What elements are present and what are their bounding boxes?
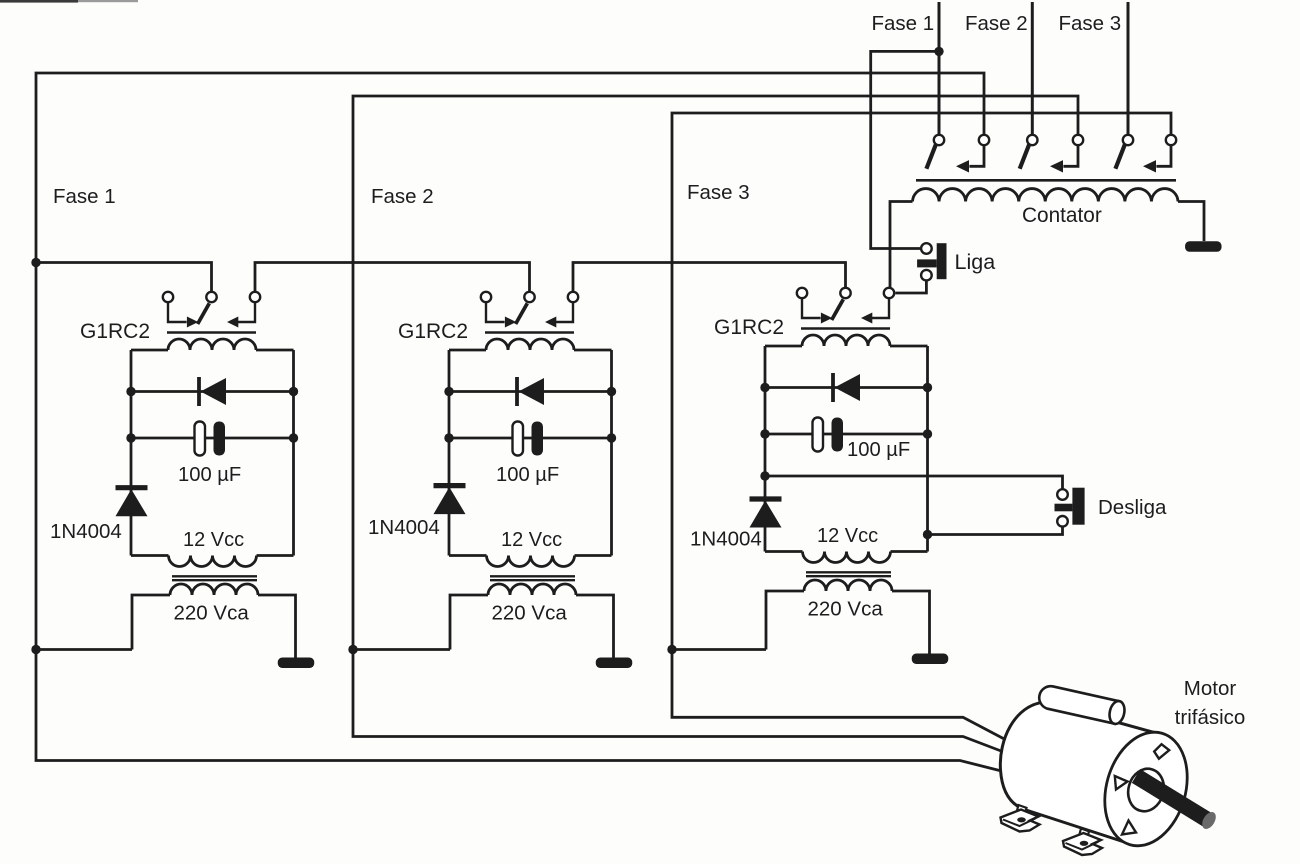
svg-text:1N4004: 1N4004 <box>368 516 440 539</box>
relay RL2 contacts <box>481 292 491 302</box>
wire rail to T1 primary <box>36 648 132 651</box>
wire phase2 to motor <box>353 650 1005 753</box>
diode 1N4004 (module 1) <box>116 485 148 490</box>
svg-text:100 µF: 100 µF <box>496 464 559 486</box>
junction C2 left <box>444 433 453 442</box>
svg-text:Fase 2: Fase 2 <box>371 185 434 208</box>
junction C2 right <box>607 433 616 442</box>
svg-text:Contator: Contator <box>1022 204 1102 227</box>
svg-text:Fase 1: Fase 1 <box>53 185 116 208</box>
relay RL3 coil <box>801 327 890 330</box>
junction Fase 1 tap <box>934 47 943 56</box>
svg-text:100 µF: 100 µF <box>847 439 910 461</box>
ground transformer T2 <box>596 658 633 669</box>
wire diode D1 row <box>131 390 294 393</box>
wire T3 primary right lead <box>892 591 930 654</box>
ground transformer T3 <box>912 654 949 665</box>
junction D3 left <box>760 383 769 392</box>
diode 1N4004 (module 3) <box>750 496 782 501</box>
wire phase1 left rail <box>35 263 38 650</box>
junction C1 right <box>289 433 298 442</box>
motor hub <box>1123 765 1168 816</box>
wire T2 primary right lead <box>576 595 614 658</box>
wire diode D2 row <box>449 390 612 393</box>
svg-text:220 Vca: 220 Vca <box>492 602 568 625</box>
wire phase2 bus (switch S2 to mid rail) <box>353 96 1078 650</box>
wire RL3 left branch <box>764 346 767 552</box>
transformer T2 (12 Vcc / 220 Vca) <box>487 556 575 567</box>
svg-text:trifásico: trifásico <box>1175 706 1246 729</box>
junction D2 right <box>607 387 616 396</box>
transformer T3 (12 Vcc / 220 Vca) <box>803 552 891 563</box>
svg-text:1N4004: 1N4004 <box>690 528 762 551</box>
contactor switch S1 (Fase 1) <box>934 135 944 145</box>
capacitor C3 100uF <box>813 418 824 452</box>
wire RL2 right branch <box>610 350 613 556</box>
motor vent 2 <box>1115 776 1128 790</box>
junction phase1 transformer T1 tap <box>31 645 40 654</box>
motor foot 2 <box>1063 829 1102 856</box>
pushbutton Liga <box>921 243 932 254</box>
ground contactor <box>1185 241 1222 252</box>
wire RL1 right branch <box>292 350 295 556</box>
wire T1 primary left lead <box>132 595 170 650</box>
svg-text:Fase 2: Fase 2 <box>965 12 1028 35</box>
junction phase3 transformer T3 tap <box>667 645 676 654</box>
motor vent 3 <box>1122 821 1136 835</box>
wire relay bus segment C (RL2 to RL3) <box>573 263 846 293</box>
wire relay bus segment A (rail to RL1 common) <box>36 263 212 293</box>
ground transformer T1 <box>278 658 315 669</box>
wire Fase 1 drop to switch <box>938 51 941 134</box>
capacitor C2 100uF <box>513 422 524 456</box>
svg-text:12 Vcc: 12 Vcc <box>817 525 878 547</box>
junction D1 left <box>126 387 135 396</box>
diode 1N4004 (module 2) <box>434 483 466 488</box>
motor foot 1 <box>1001 805 1040 832</box>
wire capacitor C3 row <box>765 433 928 436</box>
motor body <box>1023 702 1162 844</box>
svg-text:100 µF: 100 µF <box>178 464 241 486</box>
wire Fase 1 to Liga button <box>871 51 939 248</box>
wire T3 primary left lead <box>766 591 804 650</box>
contactor linkage bar <box>916 179 1176 182</box>
wire Liga bottom to relay RL3 contact <box>895 281 926 294</box>
svg-text:1N4004: 1N4004 <box>50 520 122 543</box>
svg-text:G1RC2: G1RC2 <box>80 320 150 343</box>
wire capacitor C2 row <box>449 437 612 440</box>
junction C3 left <box>760 429 769 438</box>
relay RL3 contacts <box>797 288 807 298</box>
wire RL3 right branch <box>926 346 929 552</box>
motor terminal box <box>1039 686 1119 724</box>
junction C1 left <box>126 433 135 442</box>
junction D3 right <box>923 383 932 392</box>
motor back face <box>1000 702 1044 809</box>
contactor switch S2 (Fase 2) <box>1027 135 1037 145</box>
wire contactor coil to ground <box>1178 202 1204 242</box>
motor vent 1 <box>1154 744 1169 759</box>
wire relay bus segment B (RL1 to RL2) <box>255 263 530 293</box>
contactor switch S3 (Fase 3) <box>1123 135 1133 145</box>
svg-text:G1RC2: G1RC2 <box>398 320 468 343</box>
wire Desliga bottom <box>928 527 1063 535</box>
svg-text:Desliga: Desliga <box>1098 496 1167 519</box>
svg-text:Fase 3: Fase 3 <box>687 181 750 204</box>
junction phase2 transformer T2 tap <box>348 645 357 654</box>
svg-text:G1RC2: G1RC2 <box>714 316 784 339</box>
junction D1 right <box>289 387 298 396</box>
motor front face <box>1092 722 1200 855</box>
wire phase3 bus (switch S3 to rail) <box>672 113 1171 650</box>
diode D2 (relay flyback) <box>515 377 519 406</box>
svg-text:220 Vca: 220 Vca <box>174 602 250 625</box>
contactor coil (Contator) <box>913 189 1179 202</box>
wire Fase 2 input drop <box>1031 2 1034 135</box>
transformer T1 (12 Vcc / 220 Vca) <box>169 556 257 567</box>
junction phase1 relay-bus tap <box>31 258 40 267</box>
svg-text:Liga: Liga <box>955 250 996 274</box>
wire Fase 3 input drop <box>1127 2 1130 135</box>
wire phase3 to motor <box>672 650 1009 742</box>
svg-text:Motor: Motor <box>1184 677 1237 700</box>
motor body top edge <box>1044 702 1162 735</box>
pushbutton Desliga <box>1057 489 1068 500</box>
motor body bottom edge <box>1023 809 1132 845</box>
wire phase1 bus (switch S1 to left rail) <box>36 73 984 263</box>
svg-text:Fase 1: Fase 1 <box>872 12 935 35</box>
capacitor C1 100uF <box>195 422 206 456</box>
wire T1 primary right lead <box>258 595 296 658</box>
svg-text:12 Vcc: 12 Vcc <box>183 529 244 551</box>
wire rail to T2 primary <box>353 648 450 651</box>
relay RL1 coil <box>167 331 256 334</box>
wire Desliga top <box>765 476 1063 489</box>
svg-text:220 Vca: 220 Vca <box>808 598 884 621</box>
junction C3 right <box>923 429 932 438</box>
diode D3 (relay flyback) <box>831 373 835 402</box>
wire capacitor C1 row <box>131 437 294 440</box>
svg-text:12 Vcc: 12 Vcc <box>501 529 562 551</box>
junction Desliga bottom tap (RL3 right branch) <box>923 530 932 539</box>
wire rail to T3 primary <box>672 648 766 651</box>
junction Desliga top tap (RL3 left branch) <box>760 471 769 480</box>
wire Fase 1 input drop <box>938 2 941 51</box>
wire contactor coil to relay RL3 contact <box>890 202 913 288</box>
wire T2 primary left lead <box>450 595 488 650</box>
relay RL2 coil <box>485 331 574 334</box>
relay RL1 contacts <box>163 292 173 302</box>
junction D2 left <box>444 387 453 396</box>
wire diode D3 row <box>765 386 928 389</box>
wire RL1 left branch <box>130 350 133 556</box>
motor shaft <box>1136 776 1209 821</box>
wire phase1 to motor <box>36 650 1000 771</box>
diode D1 (relay flyback) <box>197 377 201 406</box>
wire RL2 left branch <box>448 350 451 556</box>
svg-text:Fase 3: Fase 3 <box>1059 12 1122 35</box>
